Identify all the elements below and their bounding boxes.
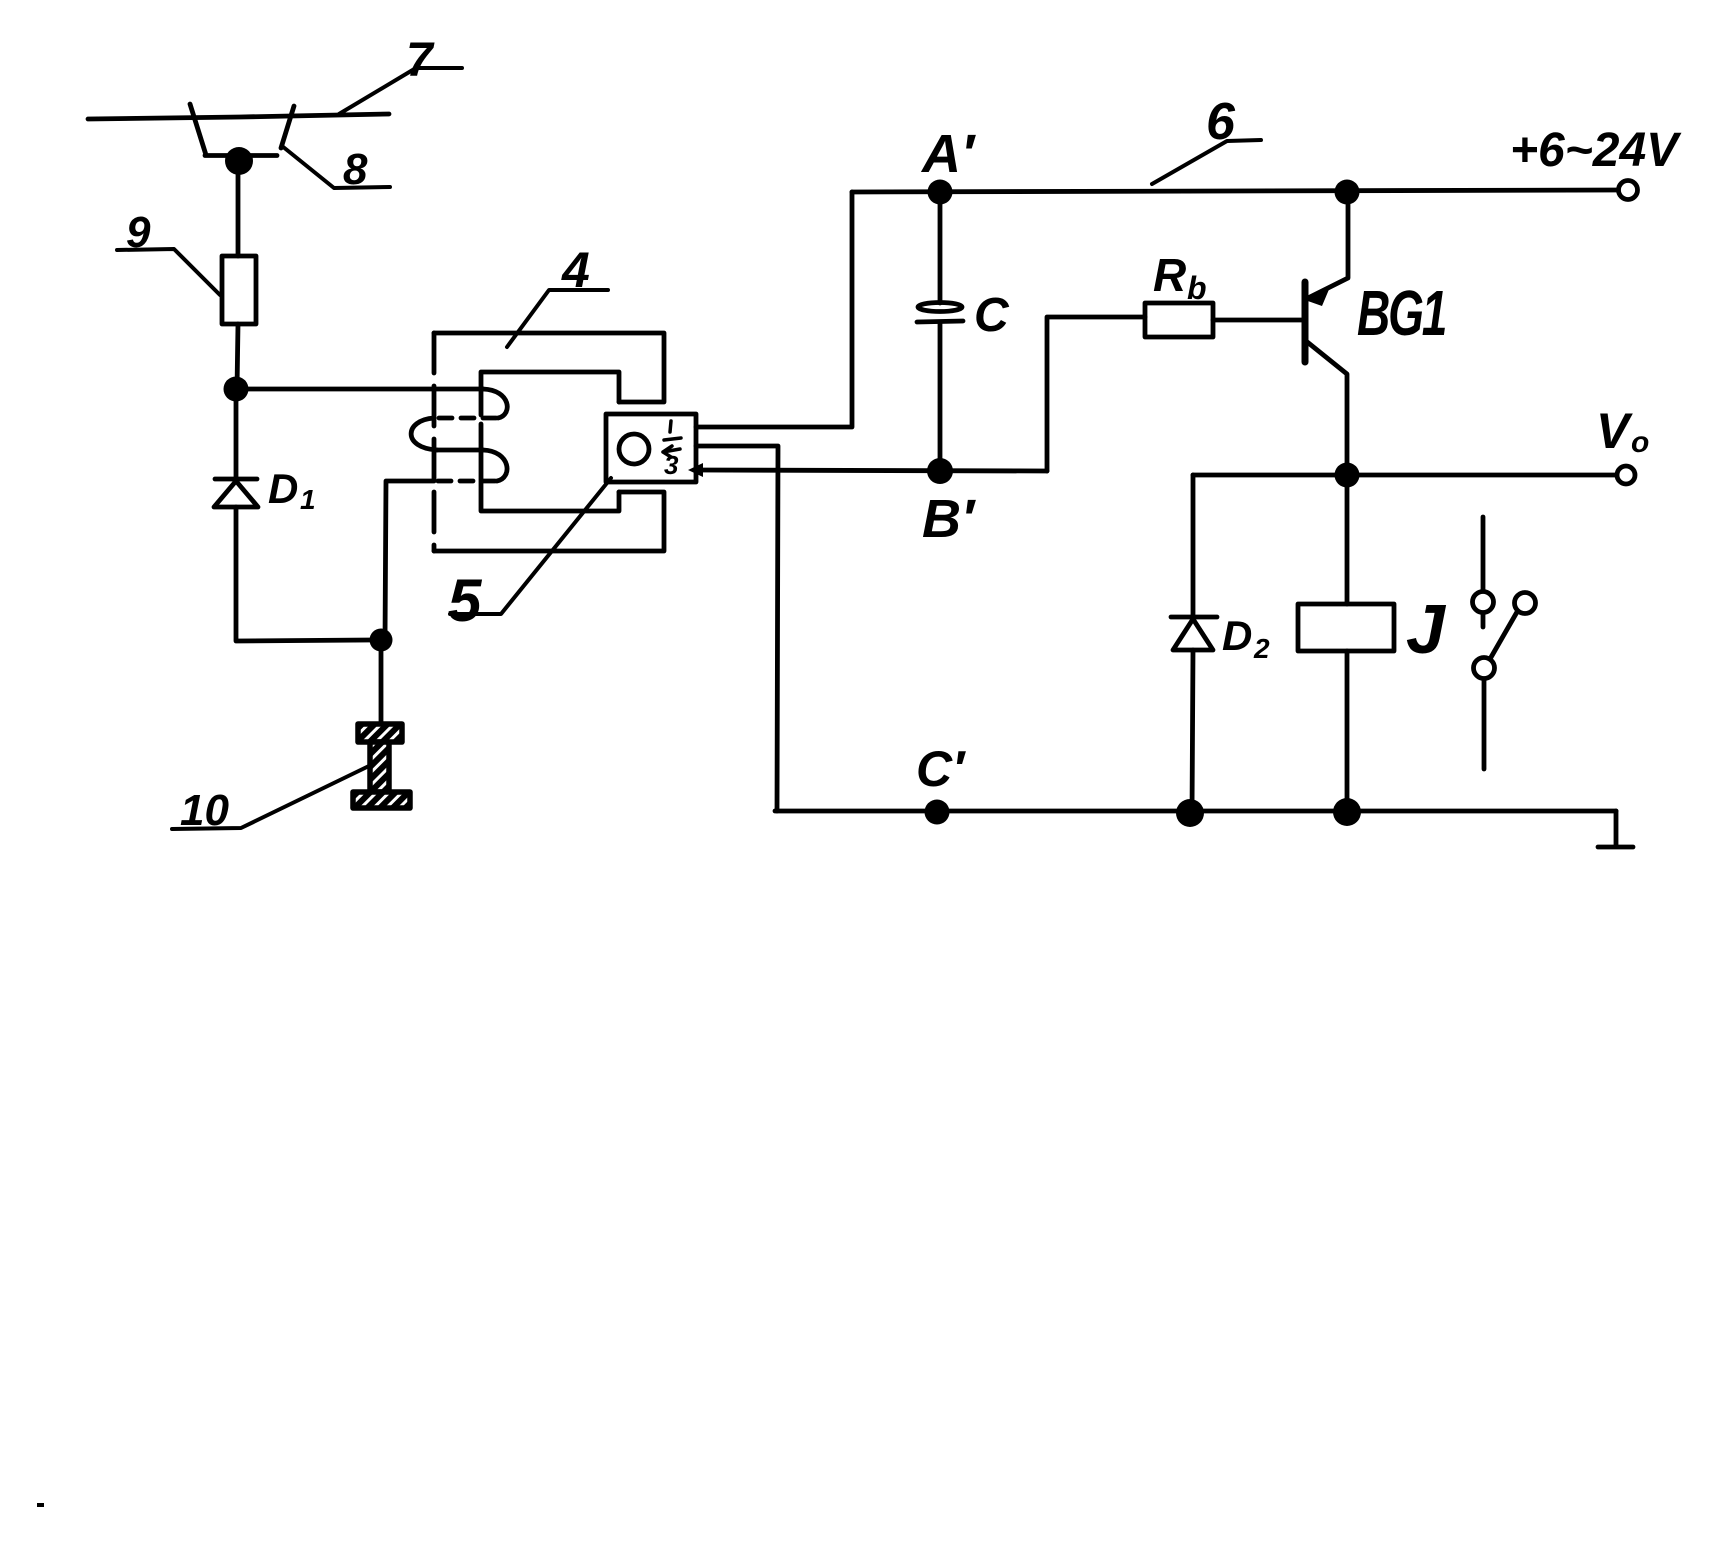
svg-text:A′: A′: [920, 124, 976, 184]
wire junction to D1: [234, 389, 239, 479]
svg-text:4: 4: [561, 242, 590, 298]
label 6 leader: [1152, 140, 1261, 184]
node: shoe output junction: [225, 147, 253, 175]
node A': [928, 180, 953, 205]
earth stub: [1598, 811, 1633, 847]
svg-text:o: o: [1631, 426, 1649, 459]
svg-text:V: V: [1596, 403, 1633, 459]
diode D2: [1171, 617, 1217, 650]
wire Rb to base of BG1: [1213, 318, 1305, 323]
hall element 5 marker circle: [619, 434, 649, 464]
svg-text:BG1: BG1: [1357, 278, 1446, 349]
relay coil J: [1298, 604, 1394, 651]
node: collector / Vo: [1335, 463, 1360, 488]
diode D1: [214, 479, 258, 507]
svg-text:B′: B′: [922, 489, 976, 549]
node: junction above D1: [224, 377, 249, 402]
svg-text:3: 3: [664, 450, 679, 480]
wire junction to magnet 10: [379, 640, 384, 724]
arrowhead at hall bottom pin: [688, 463, 703, 477]
relay contact: upper terminal circle: [1473, 592, 1494, 613]
stray mark: [37, 1503, 44, 1507]
magnetic core 4 (outer boundary with gap, left edge dashed): [434, 333, 664, 551]
svg-text:C: C: [974, 289, 1010, 342]
svg-text:10: 10: [180, 786, 229, 835]
resistor Rb: [1145, 303, 1213, 337]
wire: hall middle pin down to C' line: [696, 446, 778, 811]
transistor BG1 base bar: [1302, 282, 1309, 362]
collector shoe 8 (trapezoid): [190, 104, 294, 156]
label 10 leader: [172, 765, 371, 829]
node: relay ground junction: [1333, 798, 1361, 826]
wire: hall top pin to A' rail: [696, 192, 852, 427]
node: power rail branch: [1335, 180, 1360, 205]
wire shoe to resistor 9: [236, 161, 241, 256]
svg-text:C′: C′: [916, 741, 966, 797]
transistor BG1 collector: [1306, 341, 1347, 469]
svg-text:+6~24V: +6~24V: [1510, 124, 1682, 177]
label 8 leader: [282, 146, 390, 188]
svg-text:J: J: [1406, 590, 1447, 668]
hall element 5 ratio marks 1/3: [663, 421, 681, 457]
svg-text:D: D: [268, 465, 298, 512]
wire Vo node to relay J: [1345, 475, 1350, 604]
label 4 leader: [507, 290, 608, 347]
relay contact: lower lead: [1482, 680, 1487, 769]
label 9 leader: [117, 249, 220, 295]
output line Vo: [1193, 473, 1616, 478]
node: lower-left junction: [370, 629, 393, 652]
wire Vo line to D2: [1191, 475, 1196, 617]
hall element 5 (box): [606, 414, 696, 482]
node C': [925, 800, 950, 825]
wire: hall bottom pin to B' line: [696, 470, 1047, 471]
terminal Vo: [1617, 466, 1635, 484]
wire B' line up to Rb: [1047, 317, 1145, 471]
wire: overhead contact line 7: [88, 114, 389, 119]
power rail 6 (A' line): [852, 190, 1618, 192]
node: D2 ground junction: [1176, 799, 1204, 827]
svg-text:7: 7: [406, 34, 435, 87]
svg-text:R: R: [1153, 249, 1186, 301]
label 7 leader: [339, 68, 462, 114]
svg-text:b: b: [1187, 270, 1207, 306]
ground line C': [775, 809, 1616, 814]
svg-text:1: 1: [300, 484, 316, 515]
relay contact: upper stub: [1481, 614, 1486, 627]
wire relay J to ground line: [1345, 651, 1350, 813]
transistor BG1 emitter (arrow into bar): [1308, 199, 1348, 298]
svg-text:2: 2: [1253, 633, 1270, 664]
svg-text:8: 8: [343, 145, 368, 194]
svg-text:5: 5: [448, 567, 483, 634]
capacitor C: [938, 192, 943, 303]
wire D2 to ground line: [1192, 650, 1193, 813]
relay contact: upper lead: [1481, 517, 1486, 590]
relay contact: blade: [1490, 612, 1517, 659]
node B': [927, 458, 953, 484]
wire D1 to lower junction: [236, 507, 370, 641]
svg-text:D: D: [1222, 612, 1252, 659]
magnetic core 4 (inner window): [481, 372, 619, 511]
wire resistor 9 to junction: [237, 324, 238, 389]
magnet/armature 10 (hatched block): [353, 724, 410, 808]
relay contact: lower terminal circle: [1474, 658, 1495, 679]
excitation coil wound on core 4: [236, 387, 483, 392]
label 5 leader: [450, 478, 611, 614]
resistor 9: [222, 256, 256, 324]
terminal +6~24V: [1619, 181, 1638, 200]
relay contact: right terminal circle: [1515, 593, 1536, 614]
svg-text:9: 9: [126, 208, 151, 257]
svg-text:6: 6: [1206, 93, 1236, 151]
